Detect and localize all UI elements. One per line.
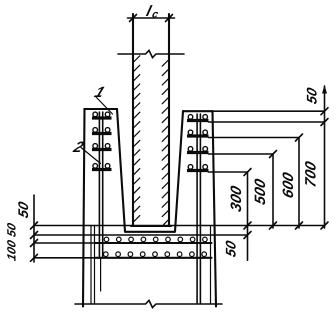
svg-text:600: 600 bbox=[280, 170, 297, 200]
svg-text:500: 500 bbox=[252, 177, 269, 207]
svg-text:300: 300 bbox=[228, 184, 245, 214]
svg-text:700: 700 bbox=[303, 159, 320, 189]
svg-text:100: 100 bbox=[5, 239, 19, 263]
